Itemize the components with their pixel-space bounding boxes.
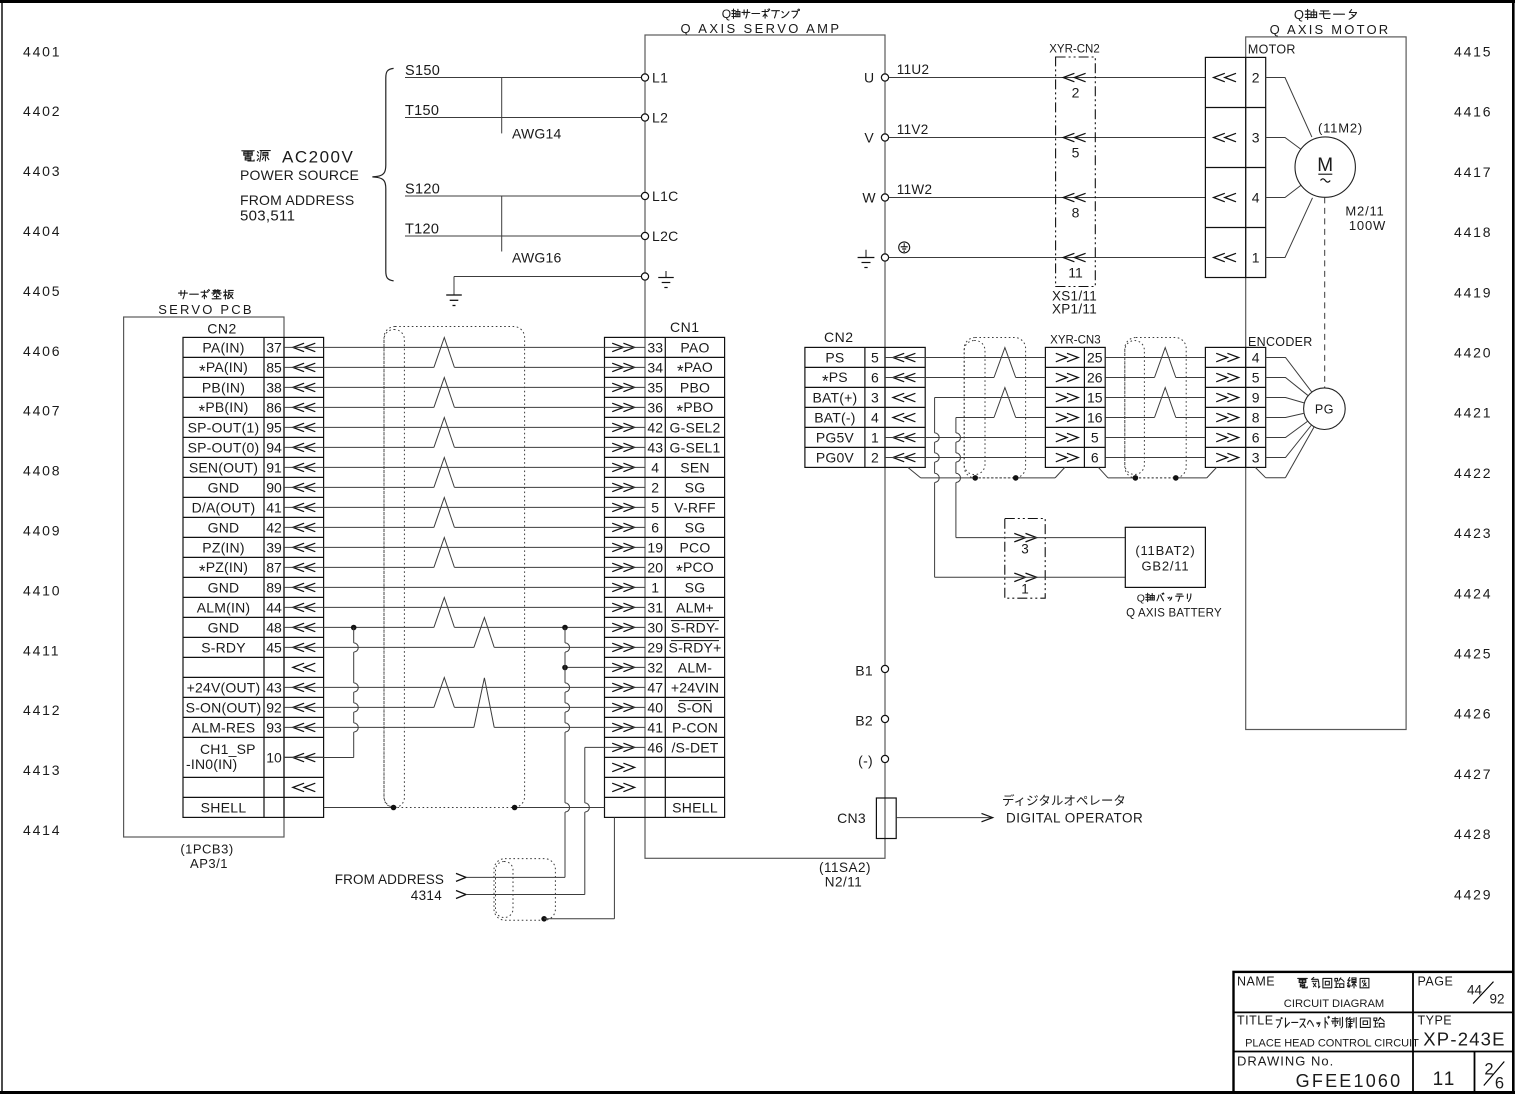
svg-text:42: 42 [647, 419, 663, 435]
wire row GND [284, 458, 645, 488]
svg-text:2: 2 [1252, 70, 1260, 86]
ENCODER pin 9 [1216, 390, 1260, 406]
svg-text:P-CON: P-CON [672, 719, 718, 735]
svg-text:15: 15 [1087, 390, 1103, 406]
MOTOR pin 1 [1214, 250, 1260, 266]
svg-text:PG: PG [1315, 402, 1334, 416]
title block page cell [1418, 975, 1505, 1007]
svg-text:TYPE: TYPE [1418, 1014, 1453, 1028]
svg-text:3: 3 [1021, 542, 1029, 557]
svg-text:89: 89 [266, 579, 282, 595]
svg-text:U: U [864, 70, 874, 86]
svg-text:44: 44 [266, 599, 282, 615]
motor M1 (11M2) [1295, 121, 1386, 234]
wire row *PA(IN) [284, 338, 645, 368]
svg-text:93: 93 [266, 719, 282, 735]
svg-text:4: 4 [651, 459, 659, 475]
CN1 pin 6 [612, 519, 705, 535]
svg-text:4418: 4418 [1454, 224, 1492, 240]
svg-text:4417: 4417 [1454, 164, 1492, 180]
CN1 pin 1 [612, 579, 705, 595]
svg-text:XYR-CN2: XYR-CN2 [1049, 44, 1099, 56]
svg-text:5: 5 [1091, 430, 1099, 446]
bus C vertical 4314 to /S-DET [585, 747, 590, 894]
CN2 pin 89 [208, 579, 316, 595]
svg-text:AWG16: AWG16 [512, 250, 562, 266]
svg-text:11U2: 11U2 [897, 62, 929, 77]
svg-text:4415: 4415 [1454, 44, 1492, 60]
svg-text:S150: S150 [405, 63, 440, 79]
wire row GND [284, 498, 645, 528]
svg-text:87: 87 [266, 559, 282, 575]
wire BAT+ net [935, 397, 1206, 399]
CN1 pin 33 [612, 339, 709, 355]
svg-text:29: 29 [647, 639, 663, 655]
svg-text:25: 25 [1087, 350, 1103, 366]
svg-text:35: 35 [647, 379, 663, 395]
svg-text:B1: B1 [855, 663, 873, 679]
svg-text:47: 47 [647, 679, 663, 695]
svg-text:DRAWING No.: DRAWING No. [1237, 1054, 1334, 1069]
XYR-CN3 pin 15 [1056, 390, 1103, 406]
connector MOTOR table [1205, 57, 1265, 277]
svg-text:PBO: PBO [680, 379, 710, 395]
svg-text:40: 40 [647, 699, 663, 715]
svg-text:(11SA2): (11SA2) [819, 860, 871, 875]
svg-text:100W: 100W [1349, 218, 1386, 233]
Q axis servo amp enclosure U1 [645, 7, 885, 858]
encoder PG [1304, 388, 1346, 430]
svg-text:TITLE: TITLE [1237, 1014, 1274, 1028]
CN2 pin 38 [202, 379, 315, 395]
CN1 pin 41 [612, 719, 718, 735]
svg-text:4426: 4426 [1454, 706, 1492, 722]
CN2pg pin BAT(+) [812, 390, 915, 406]
wire encoder fan 4 [1266, 413, 1305, 417]
svg-text:3: 3 [871, 390, 879, 406]
CN2 pin 43 [187, 679, 316, 695]
svg-text:4412: 4412 [23, 702, 61, 718]
svg-text:Q: Q [722, 7, 731, 21]
terminal amp ground (right) [881, 254, 888, 261]
svg-text:4419: 4419 [1454, 284, 1492, 300]
Q axis motor enclosure [1246, 7, 1406, 729]
svg-text:AC200V: AC200V [282, 148, 354, 167]
CN1 pin 32 [612, 659, 712, 675]
power source label block [240, 148, 359, 225]
svg-text:L2: L2 [652, 110, 668, 126]
svg-text:95: 95 [266, 419, 282, 435]
svg-text:ALM(IN): ALM(IN) [197, 599, 251, 615]
svg-text:4429: 4429 [1454, 886, 1492, 902]
wire PS net [885, 357, 1205, 359]
svg-text:-IN0(IN): -IN0(IN) [186, 756, 237, 772]
connector CN2 servo PCB table [183, 337, 324, 817]
wire motor pin4 to motor [1266, 184, 1303, 198]
wire encoder fan 3 [1266, 398, 1305, 404]
svg-text:XP1/11: XP1/11 [1052, 302, 1097, 317]
CN1 pin 46 [612, 739, 719, 755]
svg-text:1: 1 [871, 430, 879, 446]
wire W phase 11W2 [889, 182, 1206, 198]
svg-text:4414: 4414 [23, 822, 61, 838]
svg-text:4409: 4409 [23, 523, 61, 539]
svg-text:L2C: L2C [652, 228, 679, 244]
svg-text:8: 8 [1252, 410, 1260, 426]
svg-text:G-SEL1: G-SEL1 [670, 439, 721, 455]
CN2 pin 41 [192, 499, 316, 515]
bus B vertical GND48/ALM- to FROM ADDRESS [565, 628, 570, 878]
svg-text:3: 3 [1252, 450, 1260, 466]
wire ground input to amp ground terminal [454, 277, 641, 296]
CN2 pin 87 [199, 559, 315, 581]
svg-text:10: 10 [266, 750, 282, 766]
svg-text:45: 45 [266, 639, 282, 655]
ENCODER pin 4 [1216, 350, 1260, 366]
svg-text:91: 91 [266, 459, 282, 475]
CN2 pin 95 [188, 419, 316, 435]
wire row D/A(OUT) [284, 506, 645, 508]
svg-text:42: 42 [266, 519, 282, 535]
svg-text:(11M2): (11M2) [1318, 121, 1363, 136]
wire T150 to L2 [405, 103, 641, 119]
svg-text:G-SEL2: G-SEL2 [670, 419, 721, 435]
shield cable from address (dotted) [494, 859, 555, 921]
svg-text:5: 5 [1252, 370, 1260, 386]
terminal B1 [855, 663, 888, 679]
wire row PB(IN) [284, 386, 645, 388]
svg-text:4: 4 [1252, 350, 1260, 366]
terminal W [862, 190, 888, 206]
CN1 pin 20 [612, 559, 714, 581]
wire row SP-OUT(1) [284, 426, 645, 428]
terminal L2C [641, 228, 678, 244]
svg-text:XYR-CN3: XYR-CN3 [1050, 335, 1100, 347]
wire S120 to L1C [405, 182, 641, 198]
svg-text:86: 86 [266, 399, 282, 415]
svg-text:GND: GND [208, 619, 240, 635]
svg-text:46: 46 [647, 739, 663, 755]
right margin row labels 4415-4429 [1454, 44, 1492, 903]
svg-text:48: 48 [266, 619, 282, 635]
CN2 pin 91 [189, 459, 315, 475]
MOTOR pin 3 [1214, 130, 1260, 146]
svg-text:4424: 4424 [1454, 585, 1492, 601]
MOTOR pin 4 [1214, 190, 1260, 206]
CN1 pin 5 [612, 499, 716, 515]
CN1 blank pin row 23 [612, 783, 634, 792]
svg-text:3: 3 [1252, 130, 1260, 146]
wire row ALM(IN) [284, 606, 645, 608]
svg-text:GND: GND [208, 519, 240, 535]
svg-text:4314: 4314 [411, 888, 442, 903]
connector CN2 encoder side table [805, 329, 925, 467]
CN2 blank pin row 22 [293, 783, 315, 792]
CN2 pin 48 [208, 619, 316, 635]
CN1 pin 4 [612, 459, 709, 475]
svg-text:(-): (-) [858, 753, 873, 769]
svg-text:92: 92 [1489, 992, 1504, 1007]
svg-text:GND: GND [208, 579, 240, 595]
wire /S-DET 46 [585, 746, 645, 748]
svg-text:SHELL: SHELL [201, 799, 247, 815]
svg-text:S-RDY+: S-RDY+ [669, 639, 722, 655]
XYR-CN2 pin 11 arrow [1063, 253, 1085, 280]
svg-text:V-RFF: V-RFF [674, 499, 715, 515]
AWG14 cable size tick [502, 78, 562, 142]
svg-text:S-RDY-: S-RDY- [671, 619, 719, 635]
svg-text:M2/11: M2/11 [1345, 204, 1384, 219]
svg-text:4406: 4406 [23, 343, 61, 359]
terminal B2 [855, 713, 888, 729]
battery plug pin 3 [956, 533, 1125, 556]
svg-text:5: 5 [1072, 145, 1080, 161]
svg-text:S120: S120 [405, 182, 440, 198]
svg-text:CIRCUIT DIAGRAM: CIRCUIT DIAGRAM [1284, 998, 1385, 1010]
svg-text:33: 33 [647, 339, 663, 355]
XYR-CN2 pin 2 arrow [1063, 73, 1085, 100]
CN2 pin 37 [202, 339, 315, 355]
svg-text:9: 9 [1252, 390, 1260, 406]
wire row SEN(OUT) [284, 466, 645, 468]
CN2 pin 44 [197, 599, 316, 615]
svg-text:XP-243E: XP-243E [1423, 1029, 1505, 1050]
svg-text:4428: 4428 [1454, 826, 1492, 842]
svg-text:Q: Q [1294, 7, 1304, 22]
wire U phase 11U2 [889, 62, 1206, 78]
svg-text:S-ON(OUT): S-ON(OUT) [186, 699, 262, 715]
ENCODER pin 8 [1216, 410, 1260, 426]
svg-text:N2/11: N2/11 [825, 875, 863, 890]
MOTOR pin 2 [1214, 70, 1260, 86]
svg-text:1: 1 [1252, 250, 1260, 266]
svg-text:SP-OUT(0): SP-OUT(0) [188, 439, 260, 455]
svg-text:PAO: PAO [680, 339, 709, 355]
wire ALM- net [565, 666, 645, 668]
CN1 pin 35 [612, 379, 710, 395]
wire T120 to L2C [405, 222, 641, 238]
wire *PS net twisted [885, 348, 1205, 378]
svg-text:4427: 4427 [1454, 766, 1492, 782]
wire motor pin2 to motor [1266, 78, 1312, 138]
svg-text:PCO: PCO [680, 539, 711, 555]
XYR-CN3 pin 25 [1056, 350, 1103, 366]
ENCODER pin 5 [1216, 370, 1260, 386]
svg-text:92: 92 [266, 699, 282, 715]
ENCODER pin 6 [1216, 430, 1260, 446]
wire encoder fan 6 [1266, 425, 1312, 458]
svg-text:4416: 4416 [1454, 104, 1492, 120]
svg-text:L1C: L1C [652, 188, 679, 204]
wire row +24V(OUT) [284, 686, 645, 688]
svg-text:2: 2 [1072, 85, 1080, 101]
svg-text:CN2: CN2 [207, 321, 237, 337]
CN2 pin 94 [188, 439, 316, 455]
svg-text:AWG14: AWG14 [512, 126, 562, 142]
bus battery BAT+ drop [935, 398, 940, 578]
wire row S-RDY [284, 618, 645, 648]
svg-text:4425: 4425 [1454, 646, 1492, 662]
battery GB2/11 (11BAT2) [1125, 527, 1222, 619]
servo PCB enclosure AP3/1 [124, 290, 284, 872]
svg-text:2: 2 [871, 450, 879, 466]
svg-text:39: 39 [266, 539, 282, 555]
shielded cable CN2-CN1 (dotted shield) [384, 327, 525, 808]
ground symbol inside amp at output [858, 250, 875, 268]
svg-text:1: 1 [651, 579, 659, 595]
svg-text:4405: 4405 [23, 283, 61, 299]
svg-text:L1: L1 [652, 70, 668, 86]
amp reference 11SA2 N2/11 [819, 860, 871, 890]
svg-text:CH1_SP: CH1_SP [200, 741, 256, 757]
svg-text:SG: SG [685, 579, 706, 595]
svg-text:S-RDY: S-RDY [201, 639, 246, 655]
svg-text:AP3/1: AP3/1 [190, 856, 228, 871]
svg-text:4413: 4413 [23, 762, 61, 778]
svg-text:4408: 4408 [23, 463, 61, 479]
svg-text:16: 16 [1087, 410, 1103, 426]
ground symbol inside amp at L-terminals [658, 271, 674, 288]
wire encoder fan 5 [1266, 421, 1308, 437]
svg-text:BAT(+): BAT(+) [812, 390, 857, 406]
svg-text:2: 2 [651, 479, 659, 495]
svg-text:CN3: CN3 [837, 810, 866, 826]
CN2 pin 45 [201, 639, 315, 655]
title block type cell [1418, 1014, 1506, 1050]
wire V phase 11V2 [889, 122, 1206, 138]
svg-text:ALM+: ALM+ [676, 599, 714, 615]
svg-text:SHELL: SHELL [672, 799, 718, 815]
bus A vertical GND48 to CH1_SP [354, 628, 359, 758]
svg-text:41: 41 [647, 719, 663, 735]
AWG16 cable size tick [502, 196, 562, 266]
CN1 pin 42 [612, 419, 720, 435]
CN2 pin 85 [199, 359, 315, 381]
svg-text:PG0V: PG0V [816, 450, 855, 466]
wire row *PB(IN) [284, 378, 645, 408]
svg-text:85: 85 [266, 359, 282, 375]
CN1 pin 36 [612, 399, 713, 421]
svg-text:43: 43 [266, 679, 282, 695]
CN1 pin 40 [612, 699, 713, 715]
svg-text:SG: SG [685, 479, 706, 495]
svg-text:+24V(OUT): +24V(OUT) [187, 679, 261, 695]
svg-text:M: M [1317, 155, 1333, 176]
shielded cable CN2-XYRCN3 (dotted) [964, 338, 1025, 478]
svg-text:36: 36 [647, 399, 663, 415]
svg-text:4403: 4403 [23, 163, 61, 179]
CN2 pin 93 [192, 719, 316, 735]
wire BAT- net twisted [956, 388, 1206, 418]
wire from address 4314 line1 [335, 872, 565, 887]
CN1 pin 2 [612, 479, 705, 495]
digital operator label [1002, 793, 1143, 826]
svg-text:30: 30 [647, 619, 663, 635]
CN1 blank pin row 22 [612, 763, 634, 772]
svg-text:37: 37 [266, 339, 282, 355]
svg-text:4420: 4420 [1454, 345, 1492, 361]
wire CH1_SP-IN0 to bus A [284, 757, 354, 759]
CN1 pin SHELL [672, 799, 718, 815]
wire SHELL net [324, 807, 605, 809]
terminal L1 [641, 70, 668, 86]
XYR-CN2 reference XS1/11 XP1/11 [1052, 289, 1097, 317]
XYR-CN2 pin 5 arrow [1063, 133, 1085, 160]
XYR-CN3 pin 26 [1056, 370, 1103, 386]
CN2 pin 86 [198, 399, 315, 421]
svg-text:11: 11 [1433, 1069, 1457, 1090]
battery plug pin 1 [935, 573, 1126, 596]
svg-text:4401: 4401 [23, 43, 61, 59]
CN1 pin 31 [612, 599, 714, 615]
svg-text:31: 31 [647, 599, 663, 615]
svg-text:Q AXIS SERVO AMP: Q AXIS SERVO AMP [681, 21, 842, 36]
svg-text:4423: 4423 [1454, 525, 1492, 541]
svg-text:NAME: NAME [1237, 975, 1275, 989]
svg-text:6: 6 [651, 519, 659, 535]
svg-text:5: 5 [871, 350, 879, 366]
terminal L2 [641, 110, 668, 126]
svg-text:4: 4 [871, 410, 879, 426]
svg-text:MOTOR: MOTOR [1248, 43, 1296, 57]
title block title cell [1237, 1014, 1419, 1050]
terminal (-) [858, 753, 888, 769]
wire PG5V net [885, 437, 1205, 439]
svg-text:S-ON: S-ON [677, 699, 713, 715]
wire row GND [284, 598, 645, 628]
svg-text:503,511: 503,511 [240, 208, 295, 225]
svg-text:SERVO PCB: SERVO PCB [158, 302, 253, 317]
CN1 pin 19 [612, 539, 710, 555]
svg-text:6: 6 [1091, 450, 1099, 466]
connector CN1 table [605, 319, 725, 817]
CN2 pin 92 [186, 699, 316, 715]
connector XYR-CN2 [1049, 44, 1099, 287]
motor to encoder shaft dashed link [1324, 197, 1326, 388]
svg-text:SG: SG [685, 519, 706, 535]
wire row S-ON(OUT) [284, 678, 645, 708]
wire motor pin3 to motor [1266, 138, 1303, 151]
svg-text:4: 4 [1252, 190, 1260, 206]
svg-text:ALM-: ALM- [678, 659, 712, 675]
svg-text:FROM ADDRESS: FROM ADDRESS [335, 872, 444, 887]
svg-text:CN2: CN2 [824, 329, 854, 345]
svg-text:ディジタルオペレータ: ディジタルオペレータ [1002, 793, 1126, 808]
svg-text:ALM-RES: ALM-RES [192, 719, 256, 735]
svg-text:(1PCB3): (1PCB3) [180, 842, 233, 857]
CN2pg pin PS [825, 350, 915, 366]
svg-text:43: 43 [647, 439, 663, 455]
svg-text:6: 6 [871, 370, 879, 386]
CN2 pin 10 [186, 741, 315, 772]
XYR-CN3 pin 6 [1056, 450, 1099, 466]
svg-text:11V2: 11V2 [897, 122, 929, 137]
CN2pg pin BAT(-) [814, 410, 915, 426]
svg-text:/S-DET: /S-DET [671, 739, 718, 755]
wire S150 to L1 [405, 63, 641, 79]
svg-text:CN1: CN1 [670, 319, 700, 335]
svg-text:PG5V: PG5V [816, 430, 855, 446]
wire motor ground [889, 257, 1206, 259]
svg-text:PZ(IN): PZ(IN) [202, 539, 244, 555]
svg-text:SEN: SEN [680, 459, 709, 475]
CN2pg pin *PS [822, 369, 915, 391]
svg-text:Q: Q [1137, 592, 1145, 604]
svg-text:19: 19 [647, 539, 663, 555]
CN2 pin 39 [202, 539, 315, 555]
svg-text:PS: PS [825, 350, 844, 366]
svg-text:GB2/11: GB2/11 [1141, 559, 1189, 574]
